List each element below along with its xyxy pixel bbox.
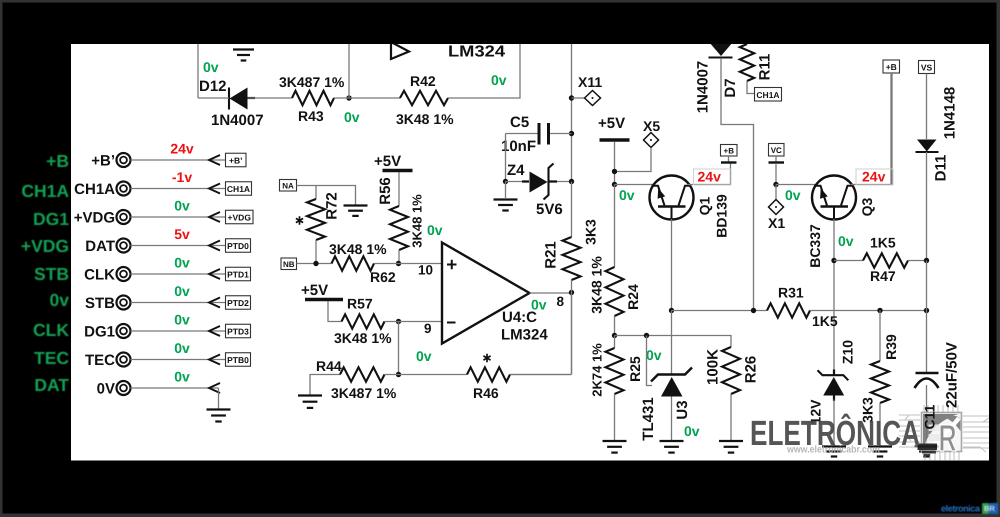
svg-text:0v: 0v bbox=[174, 198, 190, 214]
diode D12 1N4007 bbox=[199, 78, 264, 129]
svg-text:DAT: DAT bbox=[85, 238, 115, 255]
pin 10 bbox=[418, 263, 433, 278]
wire bbox=[688, 164, 731, 185]
svg-text:R47: R47 bbox=[870, 268, 896, 284]
svg-text:+B: +B bbox=[46, 151, 69, 171]
wire bbox=[571, 280, 573, 375]
junction bbox=[831, 258, 836, 263]
wire bbox=[614, 142, 616, 185]
pin X5 bbox=[615, 118, 661, 172]
wire bbox=[671, 219, 673, 311]
svg-text:3K48 1%: 3K48 1% bbox=[329, 241, 387, 257]
svg-text:Z10: Z10 bbox=[840, 340, 856, 364]
power flag VS bbox=[919, 61, 935, 140]
svg-text:VS: VS bbox=[921, 63, 933, 73]
wire bbox=[926, 261, 928, 311]
op-amp U2 LM324 (cut off at top) bbox=[391, 42, 505, 61]
ground bbox=[915, 447, 939, 457]
svg-text:LM324: LM324 bbox=[501, 327, 548, 344]
wire bbox=[248, 97, 293, 99]
wire bbox=[198, 97, 229, 99]
resistor R46 bbox=[467, 367, 510, 401]
wire bbox=[398, 322, 400, 375]
junction bbox=[751, 308, 756, 313]
wire bbox=[571, 182, 573, 238]
ground bbox=[603, 441, 627, 453]
wire bbox=[851, 73, 893, 185]
svg-text:eletronica: eletronica bbox=[941, 504, 981, 514]
power flag +B bbox=[721, 145, 738, 163]
zener Z4 5V6 bbox=[506, 162, 572, 218]
svg-text:1K5: 1K5 bbox=[812, 313, 838, 329]
junction bbox=[396, 372, 401, 377]
net voltage 0v bbox=[174, 283, 190, 299]
svg-text:0v: 0v bbox=[785, 187, 801, 203]
svg-text:PTD1: PTD1 bbox=[227, 270, 249, 280]
ground bbox=[719, 441, 743, 453]
wire bbox=[721, 58, 754, 311]
svg-text:BC337: BC337 bbox=[807, 224, 823, 268]
wire bbox=[510, 374, 572, 376]
svg-text:24v: 24v bbox=[698, 169, 722, 185]
svg-text:PTD3: PTD3 bbox=[227, 327, 249, 337]
net voltage 0v bbox=[427, 222, 443, 238]
wire bbox=[510, 374, 572, 376]
svg-text:0v: 0v bbox=[416, 348, 432, 364]
resistor R26 100K bbox=[705, 347, 760, 441]
resistor R11 bbox=[740, 44, 774, 94]
svg-text:1N4007: 1N4007 bbox=[211, 112, 264, 129]
svg-text:TL431: TL431 bbox=[640, 397, 657, 440]
svg-text:100K: 100K bbox=[705, 349, 722, 385]
svg-text:0v: 0v bbox=[684, 423, 700, 439]
svg-text:DG1: DG1 bbox=[33, 209, 69, 229]
junction bbox=[612, 333, 617, 338]
net label NB bbox=[281, 258, 297, 270]
resistor R44 3K487 1% bbox=[316, 358, 397, 401]
svg-text:+5V: +5V bbox=[598, 115, 625, 132]
svg-text:R46: R46 bbox=[473, 385, 499, 401]
svg-text:STB: STB bbox=[85, 295, 115, 312]
svg-text:DAT: DAT bbox=[34, 375, 69, 395]
wire bbox=[505, 134, 507, 182]
junction bbox=[924, 258, 929, 263]
junction bbox=[612, 169, 617, 174]
svg-text:9: 9 bbox=[424, 321, 432, 336]
svg-text:R21: R21 bbox=[543, 241, 560, 269]
svg-text:R62: R62 bbox=[370, 269, 396, 285]
transistor Q1 BD139 bbox=[650, 176, 730, 238]
svg-text:D11: D11 bbox=[933, 155, 950, 182]
net voltage 0v bbox=[619, 187, 635, 203]
capacitor C11 22uF/50V bbox=[915, 311, 939, 447]
resistor R39 3K3 bbox=[860, 311, 900, 447]
diode D7 1N4007 bbox=[695, 42, 740, 113]
resistor R42 3K48 1% bbox=[396, 73, 454, 127]
terminal DAT bbox=[85, 238, 250, 255]
ground bbox=[494, 182, 518, 211]
resistor R21 3K3 bbox=[543, 219, 599, 280]
net voltage 0v bbox=[174, 255, 190, 271]
svg-text:3K3: 3K3 bbox=[583, 219, 599, 245]
resistor R57 3K48 1% bbox=[328, 296, 392, 347]
svg-text:C11: C11 bbox=[922, 404, 938, 429]
svg-text:0v: 0v bbox=[491, 72, 507, 88]
net voltage 24v bbox=[694, 169, 732, 186]
resistor R47 1K5 bbox=[834, 235, 927, 285]
svg-text:PTB0: PTB0 bbox=[227, 355, 249, 365]
net label CH1A bbox=[755, 88, 782, 102]
junction bbox=[346, 95, 351, 100]
svg-text:CLK: CLK bbox=[33, 320, 69, 340]
wire bbox=[348, 44, 350, 98]
power +5V bbox=[301, 282, 343, 300]
svg-text:D12: D12 bbox=[199, 78, 227, 95]
svg-text:+5V: +5V bbox=[301, 282, 328, 299]
zener Z10 12V bbox=[808, 340, 856, 446]
junction bbox=[396, 261, 401, 266]
net voltage 0v bbox=[684, 423, 700, 439]
svg-text:3K48 1%: 3K48 1% bbox=[589, 256, 605, 314]
svg-text:0v: 0v bbox=[427, 222, 443, 238]
net voltage 24v bbox=[170, 141, 194, 157]
net voltage 0v bbox=[785, 187, 801, 203]
svg-text:DG1: DG1 bbox=[84, 324, 115, 341]
svg-text:+VDG: +VDG bbox=[74, 210, 115, 227]
svg-text:CLK: CLK bbox=[84, 267, 115, 284]
net voltage 0v bbox=[174, 340, 190, 356]
svg-text:0v: 0v bbox=[344, 109, 360, 125]
svg-text:0v: 0v bbox=[174, 283, 190, 299]
terminal +VDG bbox=[74, 210, 253, 227]
svg-text:Z4: Z4 bbox=[507, 162, 525, 179]
star mark bbox=[296, 216, 303, 224]
resistor R25 2K74 1% bbox=[590, 336, 644, 441]
svg-text:0v: 0v bbox=[203, 59, 219, 75]
svg-text:R24: R24 bbox=[625, 284, 641, 310]
svg-text:X1: X1 bbox=[768, 215, 785, 231]
svg-text:R39: R39 bbox=[883, 334, 899, 360]
terminal +B' bbox=[91, 153, 246, 170]
svg-text:24v: 24v bbox=[862, 169, 886, 185]
svg-text:+B: +B bbox=[886, 62, 897, 72]
junction bbox=[569, 179, 574, 184]
power +5V bbox=[374, 153, 413, 171]
terminal CH1A bbox=[74, 181, 251, 198]
junction bbox=[569, 131, 574, 136]
pin 9 bbox=[424, 321, 432, 336]
svg-text:5V6: 5V6 bbox=[536, 201, 563, 218]
svg-text:R56: R56 bbox=[377, 177, 394, 205]
net voltage 0v bbox=[838, 233, 854, 249]
net label NA bbox=[280, 180, 297, 192]
diode D11 1N4148 bbox=[916, 87, 959, 182]
ground bbox=[868, 447, 892, 457]
svg-text:+B’: +B’ bbox=[91, 153, 115, 170]
terminal TEC bbox=[85, 352, 251, 369]
svg-text:X11: X11 bbox=[578, 74, 602, 90]
wire bbox=[615, 184, 657, 186]
svg-text:22uF/50V: 22uF/50V bbox=[944, 342, 961, 408]
net voltage 0v bbox=[416, 348, 432, 364]
ground bbox=[207, 388, 231, 422]
star mark bbox=[483, 354, 490, 362]
net voltage 0v bbox=[531, 297, 547, 313]
net voltage 0v bbox=[174, 312, 190, 328]
svg-text:10nF: 10nF bbox=[501, 138, 536, 155]
resistor R43 3K487 1% bbox=[279, 74, 345, 124]
net voltage 0v bbox=[174, 369, 190, 385]
power flag +B bbox=[883, 60, 900, 185]
svg-text:10: 10 bbox=[418, 263, 433, 278]
junction bbox=[669, 308, 674, 313]
watermark ELETRONICA BR logo bbox=[750, 405, 989, 460]
svg-text:CH1A: CH1A bbox=[74, 181, 115, 198]
wire bbox=[810, 310, 927, 312]
transistor Q3 BC337 bbox=[807, 176, 875, 268]
svg-text:BR: BR bbox=[984, 504, 995, 513]
svg-text:BD139: BD139 bbox=[714, 194, 730, 238]
svg-text:3K48 1%: 3K48 1% bbox=[396, 111, 454, 127]
svg-text:U3: U3 bbox=[674, 400, 691, 419]
resistor R56 3K48 1% bbox=[377, 172, 425, 264]
svg-text:C5: C5 bbox=[510, 114, 529, 131]
ground bbox=[822, 447, 846, 457]
net voltage 24v bbox=[856, 169, 893, 186]
svg-text:NA: NA bbox=[282, 181, 294, 190]
left pin name labels bbox=[21, 151, 70, 395]
svg-text:8: 8 bbox=[557, 294, 565, 309]
svg-text:1N4148: 1N4148 bbox=[942, 87, 959, 140]
svg-text:0v: 0v bbox=[174, 312, 190, 328]
svg-text:0v: 0v bbox=[838, 233, 854, 249]
svg-text:R25: R25 bbox=[627, 356, 643, 382]
wire bbox=[297, 263, 332, 265]
terminal CLK bbox=[84, 267, 250, 284]
capacitor C5 10nF bbox=[501, 114, 572, 155]
junction bbox=[503, 179, 508, 184]
svg-text:R26: R26 bbox=[743, 356, 760, 384]
svg-text:Q1: Q1 bbox=[697, 196, 713, 215]
svg-text:CH1A: CH1A bbox=[227, 184, 250, 194]
junction bbox=[877, 308, 882, 313]
net voltage 0v bbox=[344, 109, 360, 125]
wire bbox=[385, 374, 468, 376]
svg-text:TEC: TEC bbox=[85, 352, 115, 369]
small blue watermark bbox=[941, 503, 998, 514]
svg-text:R44: R44 bbox=[316, 358, 342, 374]
power +5V bbox=[598, 115, 630, 140]
svg-text:0v: 0v bbox=[646, 347, 662, 363]
svg-text:D7: D7 bbox=[722, 78, 739, 97]
junction bbox=[612, 182, 617, 187]
junction bbox=[313, 261, 318, 266]
svg-text:+5V: +5V bbox=[374, 153, 401, 170]
junction bbox=[773, 182, 778, 187]
svg-text:24v: 24v bbox=[170, 141, 194, 157]
svg-text:www.eletronicabr.com: www.eletronicabr.com bbox=[786, 445, 880, 456]
wire bbox=[571, 44, 573, 182]
svg-text:+VDG: +VDG bbox=[228, 213, 252, 223]
svg-text:R11: R11 bbox=[757, 54, 774, 81]
ground bbox=[660, 441, 684, 453]
svg-text:5v: 5v bbox=[174, 226, 190, 242]
net voltage 0v bbox=[646, 347, 662, 363]
terminal DG1 bbox=[84, 324, 250, 341]
ground bbox=[298, 375, 340, 408]
svg-text:R: R bbox=[939, 418, 957, 460]
svg-text:0v: 0v bbox=[174, 340, 190, 356]
capacitor C11 value labels bbox=[922, 342, 961, 429]
wire bbox=[297, 186, 356, 205]
junction bbox=[396, 319, 401, 324]
svg-text:1N4007: 1N4007 bbox=[695, 61, 712, 114]
wire bbox=[615, 336, 732, 348]
net voltage -1v bbox=[172, 169, 192, 185]
svg-text:0v: 0v bbox=[174, 255, 190, 271]
terminal 0V bbox=[97, 381, 220, 398]
wire bbox=[672, 310, 768, 312]
svg-text:CH1A: CH1A bbox=[21, 181, 69, 201]
svg-text:PTD2: PTD2 bbox=[227, 298, 249, 308]
wire bbox=[776, 184, 819, 186]
svg-text:R42: R42 bbox=[410, 73, 436, 89]
wire bbox=[385, 321, 443, 323]
svg-text:3K487 1%: 3K487 1% bbox=[279, 74, 345, 90]
svg-text:-1v: -1v bbox=[172, 169, 192, 185]
svg-text:3K487 1%: 3K487 1% bbox=[331, 385, 397, 401]
resistor R24 3K48 1% bbox=[589, 185, 642, 336]
net voltage 5v bbox=[174, 226, 190, 242]
svg-text:0v: 0v bbox=[531, 297, 547, 313]
svg-text:3K48 1%: 3K48 1% bbox=[334, 330, 392, 346]
wire bbox=[197, 44, 199, 98]
junction bbox=[644, 333, 649, 338]
pin X11 bbox=[572, 74, 603, 106]
power flag VC bbox=[769, 144, 785, 185]
svg-text:0V: 0V bbox=[97, 381, 115, 398]
resistor R31 1K5 bbox=[767, 285, 838, 330]
wire bbox=[448, 44, 520, 98]
svg-text:STB: STB bbox=[34, 264, 69, 284]
svg-text:CH1A: CH1A bbox=[756, 90, 779, 100]
svg-text:R72: R72 bbox=[324, 192, 341, 220]
op-amp U4:C LM324 bbox=[442, 243, 548, 344]
wire bbox=[334, 97, 400, 99]
svg-text:X5: X5 bbox=[643, 118, 660, 134]
svg-text:0v: 0v bbox=[619, 187, 635, 203]
svg-text:+B: +B bbox=[724, 146, 735, 155]
resistor R72 bbox=[307, 186, 341, 264]
net voltage 0v bbox=[174, 198, 190, 214]
ground bbox=[233, 50, 254, 61]
net voltage 0v bbox=[203, 59, 219, 75]
svg-text:NB: NB bbox=[283, 260, 295, 269]
svg-text:PTD0: PTD0 bbox=[227, 241, 249, 251]
svg-text:TEC: TEC bbox=[34, 348, 69, 368]
svg-text:VC: VC bbox=[771, 146, 782, 155]
wire bbox=[374, 263, 442, 265]
resistor R62 3K48 1% bbox=[329, 241, 396, 285]
svg-text:3K48 1%: 3K48 1% bbox=[410, 194, 425, 248]
junction bbox=[569, 290, 574, 295]
terminal STB bbox=[85, 295, 251, 312]
wire bbox=[926, 152, 928, 261]
svg-text:R57: R57 bbox=[347, 296, 373, 312]
svg-text:0v: 0v bbox=[174, 369, 190, 385]
pin X1 bbox=[768, 185, 785, 232]
svg-text:1K5: 1K5 bbox=[870, 235, 896, 251]
svg-text:Q3: Q3 bbox=[859, 197, 875, 216]
junction bbox=[924, 308, 929, 313]
junction bbox=[569, 95, 574, 100]
svg-text:LM324: LM324 bbox=[448, 44, 505, 61]
svg-text:R31: R31 bbox=[778, 285, 804, 301]
wire bbox=[530, 292, 572, 294]
svg-text:0v: 0v bbox=[50, 290, 70, 310]
svg-text:+VDG: +VDG bbox=[21, 236, 69, 256]
shunt reference U3 TL431 bbox=[640, 311, 692, 441]
pin 8 bbox=[557, 294, 565, 309]
svg-text:+B’: +B’ bbox=[229, 156, 242, 166]
svg-text:2K74 1%: 2K74 1% bbox=[590, 343, 605, 397]
ground bbox=[344, 206, 368, 216]
wire bbox=[833, 219, 835, 371]
svg-text:R43: R43 bbox=[298, 108, 324, 124]
net voltage 0v bbox=[491, 72, 507, 88]
